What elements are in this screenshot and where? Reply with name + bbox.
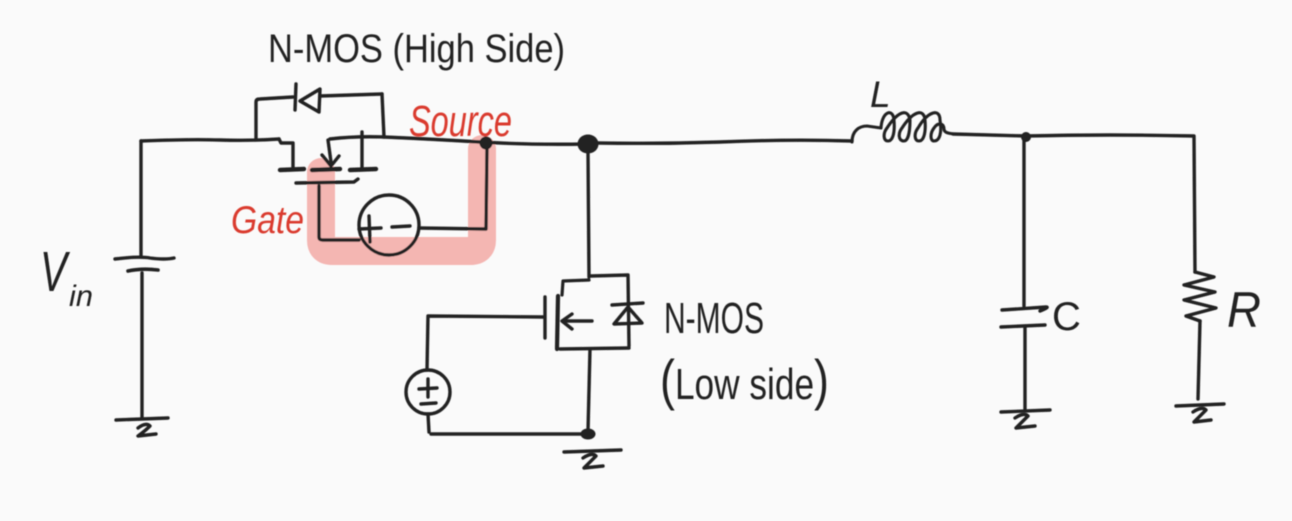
svg-text:N-MOS (High Side): N-MOS (High Side) [268, 27, 565, 71]
svg-text:L: L [870, 74, 891, 115]
V2 minus [392, 226, 410, 227]
source V3 (low gate drive) circle [406, 370, 450, 414]
wire source rail to SW node [330, 137, 586, 145]
svg-text:in: in [69, 280, 93, 313]
Q2 gate bar [543, 297, 546, 338]
battery V1 top plate [115, 257, 174, 259]
label R [1227, 282, 1261, 338]
wire Vin vertical [139, 141, 142, 257]
svg-text:(Low side): (Low side) [660, 348, 829, 411]
Q1 gate bar [296, 179, 358, 183]
label N-MOS (low) [664, 294, 764, 343]
wire out node down to C [1022, 137, 1025, 306]
ground (Vin) [116, 418, 168, 420]
wire inductor to out node [953, 134, 1026, 136]
svg-text:V: V [40, 240, 71, 304]
battery V1 bottom plate [128, 269, 158, 271]
wire R to ground [1198, 321, 1200, 399]
svg-text:R: R [1227, 282, 1261, 338]
Q2 channel bar [557, 296, 558, 349]
inductor L [852, 113, 953, 142]
wire SW to inductor [598, 140, 852, 143]
highlighter path (gate-source loop) [321, 149, 482, 251]
wire V2 to source node [419, 148, 487, 229]
label C [1052, 295, 1081, 339]
wire high gate down [319, 186, 359, 240]
wire Q2 source down [588, 349, 590, 431]
svg-text:Gate: Gate [231, 199, 304, 242]
resistor R zigzag [1184, 272, 1216, 321]
V3 plus [426, 379, 429, 397]
node SW (junction dot) [578, 135, 599, 154]
Q1 bulk arrow [328, 140, 331, 162]
node source (junction dot) [480, 137, 493, 150]
label Source (red) [409, 97, 512, 146]
wire top rail from Vin to high-side MOSFET [141, 139, 279, 141]
source V2 (high gate drive) circle [359, 195, 419, 255]
transistor Q1 high-side N-MOS: drain stub [279, 139, 293, 167]
Q1 channel flare right [350, 169, 376, 170]
transistor Q2 low-side N-MOS: drain step [562, 280, 589, 295]
ground (low side) [564, 450, 621, 452]
wire battery to ground [140, 273, 143, 418]
label (Low side) [660, 348, 829, 411]
node out [1021, 132, 1031, 142]
ground (R) [1176, 404, 1224, 406]
body diode D1 loop of Q1 [256, 97, 293, 139]
capacitor C bottom plate [1001, 325, 1045, 327]
V3 minus [421, 403, 436, 404]
wire C to ground [1023, 327, 1026, 409]
svg-text:N-MOS: N-MOS [664, 294, 764, 343]
label Vin [40, 240, 93, 313]
svg-text:C: C [1052, 295, 1081, 339]
label Gate (red) [231, 199, 304, 242]
ground (C) [1001, 410, 1050, 412]
wire bottom rail [431, 432, 586, 435]
label N-MOS (High Side) [268, 27, 565, 71]
Q1 channel flare mid [312, 169, 340, 170]
capacitor C top plate [1002, 307, 1047, 311]
D2 cathode bar [612, 303, 643, 305]
V2 plus [369, 216, 370, 242]
wire V3 bottom to node [428, 414, 429, 432]
Q2 bulk arrow [564, 319, 592, 322]
Q1 channel flare left [280, 169, 304, 170]
body diode D2 loop of Q2 [591, 275, 629, 346]
node bottom junction [581, 429, 596, 440]
wire out rail right + down [1026, 135, 1195, 272]
D2 triangle [614, 307, 642, 324]
label L [870, 74, 891, 115]
svg-text:Source: Source [409, 97, 512, 146]
wire Q2 gate to V3 [427, 316, 543, 370]
wire SW node down to Q2 drain [588, 152, 589, 277]
Q1 source stub [360, 132, 363, 168]
